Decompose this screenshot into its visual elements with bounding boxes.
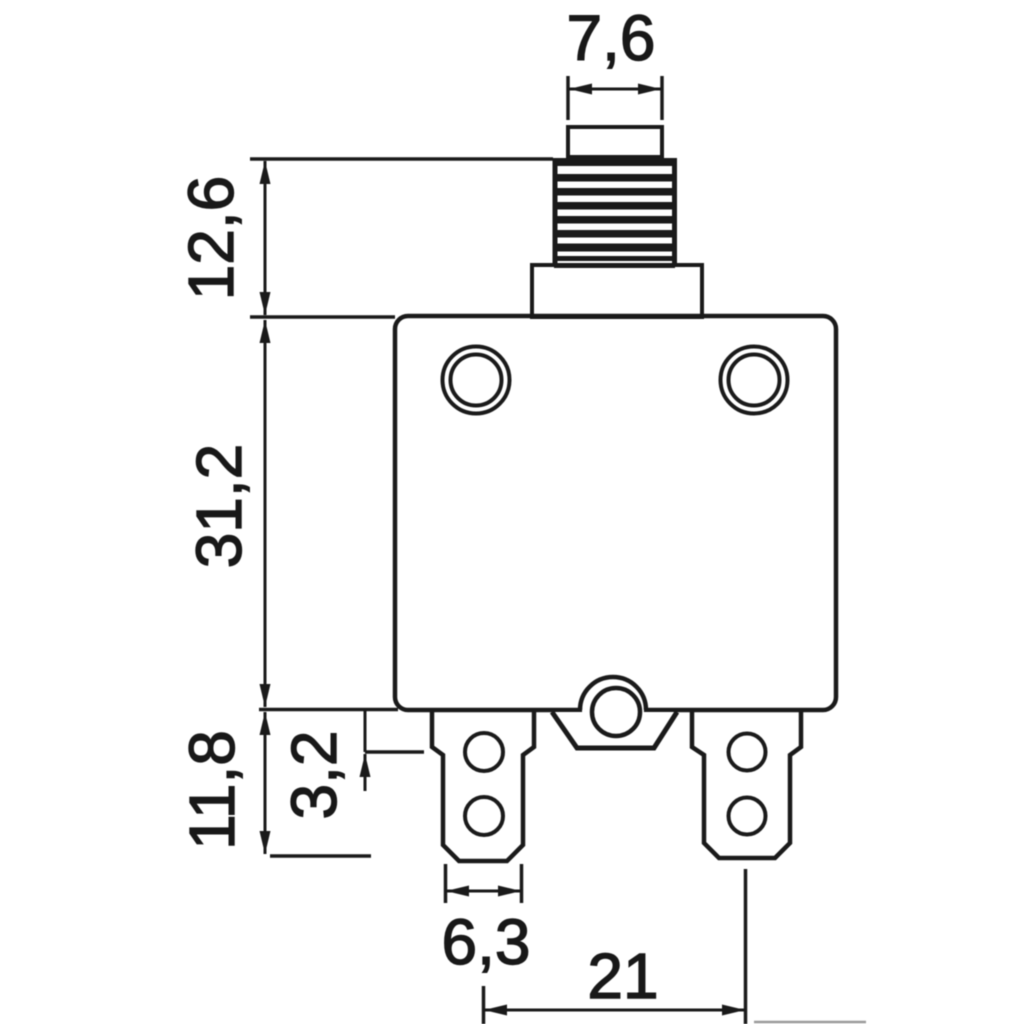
dimension 31,2 arrow line bbox=[260, 320, 271, 707]
bushing base bbox=[532, 265, 702, 317]
right terminal blade bbox=[692, 710, 801, 858]
dimension 21 extension lines bbox=[484, 869, 746, 1024]
svg-text:31,2: 31,2 bbox=[183, 444, 255, 569]
svg-text:3,2: 3,2 bbox=[278, 731, 350, 820]
dimension 21 arrow line bbox=[484, 1005, 745, 1016]
dimension 12,6 arrow line bbox=[260, 161, 271, 315]
svg-text:12,6: 12,6 bbox=[175, 176, 247, 301]
right terminal upper hole bbox=[729, 734, 766, 771]
dimension 3,2 arrow bbox=[360, 754, 371, 791]
svg-text:21: 21 bbox=[587, 940, 658, 1012]
left terminal upper hole bbox=[465, 733, 503, 771]
dimension 11,8 bottom extension line bbox=[270, 854, 371, 858]
dimension 7,6 extension lines bbox=[568, 76, 662, 120]
dimension 31,2 bottom extension line bbox=[259, 708, 398, 712]
left terminal blade bbox=[432, 710, 534, 861]
dimension 3,2 shoulder line bbox=[365, 750, 424, 754]
dimension 6,3 extension lines bbox=[446, 864, 522, 903]
right mounting hole bbox=[721, 347, 788, 414]
dimension 12,6 extension lines bbox=[250, 159, 553, 317]
svg-text:11,8: 11,8 bbox=[176, 730, 248, 850]
threaded neck bbox=[554, 158, 675, 268]
svg-text:6,3: 6,3 bbox=[442, 906, 531, 978]
dimension 11,8 arrow line bbox=[260, 712, 271, 854]
center boss dome bbox=[580, 677, 646, 741]
left mounting hole bbox=[443, 347, 510, 414]
center boss pad bbox=[552, 712, 677, 748]
dimension 6,3 arrow line bbox=[446, 886, 521, 897]
breaker body bbox=[395, 316, 836, 710]
scan artifact line bbox=[754, 1021, 866, 1024]
dimension 7,6 arrow line bbox=[569, 84, 661, 95]
svg-text:7,6: 7,6 bbox=[567, 2, 656, 74]
dimension 3,2 leader line bbox=[364, 710, 367, 752]
left terminal lower hole bbox=[465, 797, 503, 835]
push button cap bbox=[568, 127, 662, 157]
right terminal lower hole bbox=[729, 798, 766, 835]
center boss rivet bbox=[592, 688, 640, 736]
